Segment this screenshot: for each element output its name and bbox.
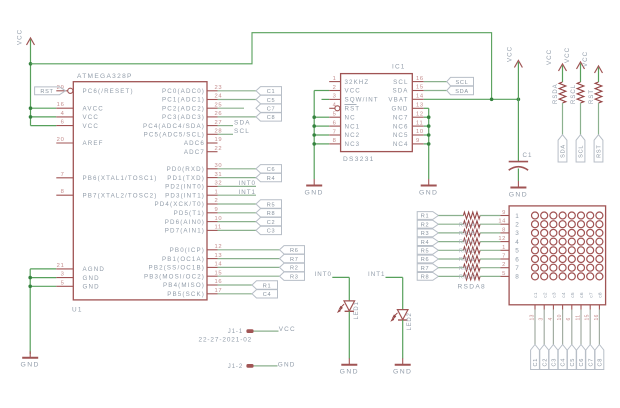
- svg-text:PC0(ADC0): PC0(ADC0): [162, 88, 205, 95]
- resistor RSDA8 element 5: [459, 247, 480, 255]
- svg-text:22: 22: [215, 146, 223, 152]
- svg-text:C1: C1: [267, 89, 276, 95]
- svg-text:ADC6: ADC6: [184, 140, 205, 147]
- pin 16 PB4(MISO) U1: [163, 279, 222, 289]
- pin 16 SCL IC1: [393, 76, 424, 86]
- svg-text:23: 23: [215, 85, 223, 91]
- wire matrix column 5 down: [571, 310, 573, 345]
- svg-text:SCL: SCL: [393, 79, 408, 86]
- net flag C7 (matrix): [586, 345, 595, 370]
- net flag R2: [280, 263, 305, 272]
- wire matrix column 6 down: [580, 310, 582, 345]
- junction on VCC rail at top branch: [29, 62, 33, 66]
- pin 22 ADC7 U1: [184, 146, 222, 156]
- svg-text:9: 9: [502, 210, 506, 216]
- svg-text:PD3(INT1): PD3(INT1): [165, 192, 205, 199]
- svg-text:NC2: NC2: [345, 132, 361, 139]
- svg-text:VCC: VCC: [345, 88, 361, 95]
- svg-text:PC5(ADC5/SCL): PC5(ADC5/SCL): [144, 132, 205, 139]
- svg-text:PC2(ADC2): PC2(ADC2): [162, 105, 205, 112]
- wire resistor to matrix pin 14: [480, 223, 500, 225]
- pin 12 PB0(ICP) U1: [170, 244, 223, 254]
- resistor RSDA: [553, 82, 566, 104]
- svg-text:8: 8: [61, 189, 65, 195]
- svg-text:16: 16: [57, 102, 65, 108]
- wire IC1 pin7 feed: [314, 134, 329, 136]
- wire IC1 pin11 feed: [424, 125, 429, 127]
- wire resistor to matrix pin 12: [480, 241, 500, 243]
- wire INT0 net at U1: [218, 185, 257, 187]
- svg-text:C7: C7: [588, 358, 594, 367]
- resistor RSDA8 element 3: [459, 230, 480, 238]
- svg-text:21: 21: [57, 263, 65, 269]
- net flag C4: [252, 290, 278, 299]
- svg-text:16: 16: [215, 279, 223, 285]
- wire SCL net at U1: [218, 133, 234, 135]
- svg-text:RSCL: RSCL: [571, 84, 577, 104]
- svg-text:c2: c2: [542, 292, 548, 298]
- wire IC1 pin2 to gnd rail: [314, 90, 329, 92]
- wire matrix column 3 down: [552, 310, 554, 345]
- pin 14 LED matrix row 2: [498, 219, 509, 225]
- svg-text:c6: c6: [579, 292, 585, 298]
- overline RST IC1: [345, 104, 357, 106]
- svg-text:9: 9: [215, 207, 219, 213]
- svg-text:32KHZ: 32KHZ: [345, 79, 370, 86]
- LED matrix pixel circles: [532, 212, 603, 280]
- svg-text:RST: RST: [40, 89, 53, 95]
- pin 28 PC5(ADC5/SCL) U1: [144, 129, 223, 139]
- svg-text:INT0: INT0: [315, 271, 332, 278]
- pin 17 PB5(SCK) U1: [167, 288, 222, 298]
- svg-text:6: 6: [515, 256, 519, 263]
- svg-text:SDA: SDA: [561, 144, 567, 158]
- svg-text:PB7(XTAL2/TOSC2): PB7(XTAL2/TOSC2): [83, 192, 158, 199]
- svg-text:J1-2: J1-2: [228, 364, 243, 370]
- svg-text:22-27-2021-02: 22-27-2021-02: [199, 336, 253, 343]
- svg-text:SDA: SDA: [392, 88, 408, 95]
- wire PC3 net: [218, 116, 257, 118]
- svg-text:IC1: IC1: [392, 64, 406, 71]
- svg-text:VCC: VCC: [83, 123, 100, 130]
- svg-text:19: 19: [215, 137, 223, 143]
- wire matrix column 8 down: [598, 310, 600, 345]
- net flag C2: [256, 217, 282, 226]
- net flag R1: [252, 281, 278, 290]
- pin 8 LED matrix row 3: [500, 227, 509, 233]
- svg-text:LED2: LED2: [407, 312, 413, 330]
- svg-text:J1-1: J1-1: [228, 329, 243, 335]
- svg-text:c8: c8: [598, 292, 604, 298]
- pin 5 NC IC1: [329, 112, 355, 122]
- wire GND rail left: [29, 269, 31, 354]
- svg-text:PD5(T1): PD5(T1): [174, 210, 205, 217]
- pin 9 LED matrix row 1: [500, 210, 509, 216]
- svg-text:c4: c4: [561, 292, 567, 298]
- svg-text:12: 12: [416, 111, 424, 117]
- wire top run to DS3231 area: [31, 33, 492, 100]
- wire LED1 cathode to ground: [348, 311, 350, 358]
- wire matrix column 7 down: [589, 310, 591, 345]
- wire resistor to matrix pin 7: [480, 258, 500, 260]
- svg-text:10: 10: [416, 129, 424, 135]
- pin 2 VCC IC1: [329, 85, 361, 95]
- pin 1 LED matrix row 5: [500, 245, 509, 251]
- svg-text:R1: R1: [421, 214, 430, 220]
- junction IC1 pin7: [312, 133, 316, 137]
- svg-text:VCC: VCC: [279, 326, 296, 333]
- junction VCC pin4: [29, 115, 33, 119]
- pin 8 PB7(XTAL2/TOSC2) U1: [56, 189, 157, 199]
- wire PD0 net: [218, 168, 257, 170]
- net flag R2: [417, 220, 438, 228]
- svg-text:2: 2: [515, 222, 519, 229]
- svg-text:R7: R7: [421, 266, 430, 272]
- svg-text:VCC: VCC: [83, 114, 100, 121]
- supply VCC (left): [17, 29, 35, 45]
- svg-text:c7: c7: [588, 292, 594, 298]
- wire GND pin5 feed: [30, 285, 56, 287]
- LED LED1: [338, 301, 355, 312]
- svg-text:7: 7: [333, 129, 337, 135]
- junction AVCC: [29, 106, 33, 110]
- svg-text:2: 2: [215, 198, 219, 204]
- resistor RSCL: [571, 82, 584, 104]
- svg-text:5: 5: [333, 112, 337, 118]
- junction GND pin5: [28, 285, 32, 289]
- capacitor C1: [509, 152, 533, 170]
- pin 32 PD2(INT0) U1: [165, 181, 222, 191]
- svg-text:10: 10: [215, 216, 223, 222]
- svg-text:31: 31: [215, 172, 223, 178]
- svg-text:PD7(AIN1): PD7(AIN1): [165, 228, 205, 235]
- svg-text:PB2(SS/OC1B): PB2(SS/OC1B): [149, 265, 205, 272]
- svg-text:c1: c1: [533, 292, 539, 298]
- svg-text:6: 6: [61, 120, 65, 126]
- net flag SCL (pull-up): [576, 135, 585, 162]
- svg-text:NC4: NC4: [393, 141, 409, 148]
- svg-text:PB6(XTAL1/TOSC1): PB6(XTAL1/TOSC1): [83, 175, 158, 182]
- wire RSDA to flag: [562, 103, 564, 135]
- wire AVCC feed: [31, 107, 57, 109]
- svg-text:R4: R4: [421, 240, 430, 246]
- svg-text:C4: C4: [263, 292, 272, 298]
- net flag C2 (matrix): [540, 345, 549, 370]
- wire PD5 net: [218, 212, 257, 214]
- wire VBAT to VCC node: [424, 98, 519, 100]
- pin 3 LED matrix column 2: [539, 305, 545, 321]
- svg-text:SCL: SCL: [579, 145, 585, 158]
- svg-text:C4: C4: [561, 358, 567, 367]
- svg-text:R5: R5: [421, 249, 430, 255]
- wire IC1 pin13 to gnd rail: [424, 107, 429, 109]
- svg-text:C1: C1: [533, 358, 539, 367]
- svg-text:GND: GND: [21, 362, 40, 369]
- svg-text:R4: R4: [267, 176, 276, 182]
- wire R8 to resistor: [438, 275, 463, 277]
- svg-text:7: 7: [502, 254, 506, 260]
- pin 14 PB2(SS/OC1B) U1: [149, 262, 223, 272]
- junction IC1 pin9: [427, 142, 431, 146]
- wire AGND feed: [30, 268, 56, 270]
- supply VCC (RST): [582, 51, 603, 73]
- svg-text:2: 2: [502, 262, 506, 268]
- wire R1 to resistor: [438, 215, 463, 217]
- net flag R8: [256, 209, 282, 218]
- wire PD7 net: [218, 229, 257, 231]
- LED LED2: [392, 310, 409, 321]
- pin 9 NC4 IC1: [393, 138, 424, 148]
- svg-text:4: 4: [515, 239, 519, 246]
- pin 21 AGND U1: [56, 263, 105, 273]
- net flag RST (pull-up): [594, 135, 603, 162]
- net flag R8: [417, 273, 438, 281]
- wire PB2 net: [218, 266, 280, 268]
- pin 15 SDA IC1: [392, 85, 423, 95]
- svg-text:5: 5: [502, 271, 506, 277]
- pin 10 NC5 IC1: [393, 129, 424, 139]
- junction VBAT / C1 node: [517, 98, 521, 102]
- svg-text:RN1D: RN1D: [459, 248, 476, 254]
- net flag C6: [256, 165, 282, 174]
- svg-text:INT0: INT0: [239, 180, 256, 187]
- net flag C3 (matrix): [549, 345, 558, 370]
- svg-text:R5: R5: [267, 202, 276, 208]
- pin 11 NC6 IC1: [393, 120, 424, 130]
- svg-text:8: 8: [502, 227, 506, 233]
- junction IC1 pin5: [312, 115, 316, 119]
- svg-text:C6: C6: [267, 167, 276, 173]
- wire IC1 pin8 feed: [314, 143, 329, 145]
- svg-text:R3: R3: [421, 231, 430, 237]
- svg-text:VCC: VCC: [582, 51, 589, 67]
- svg-text:12: 12: [215, 244, 223, 250]
- junction IC1 pin8: [312, 142, 316, 146]
- svg-text:1: 1: [502, 245, 506, 251]
- wire VCC rail left: [30, 40, 32, 126]
- pin 11 LED matrix column 6: [575, 305, 581, 321]
- pin 7 NC2 IC1: [329, 129, 360, 139]
- svg-text:AGND: AGND: [83, 266, 105, 273]
- svg-text:SDA: SDA: [234, 119, 251, 126]
- pin 6 NC1 IC1: [329, 120, 360, 130]
- svg-text:R8: R8: [421, 275, 430, 281]
- pin 9 PD5(T1) U1: [174, 207, 219, 217]
- wire PD6 net: [218, 221, 257, 223]
- wire matrix column 4 down: [562, 310, 564, 345]
- connector pin J1-1: [228, 329, 279, 335]
- net flag SDA (pull-up): [558, 135, 567, 162]
- wire PD4 net: [218, 203, 257, 205]
- pin 25 PC2(ADC2) U1: [162, 102, 222, 112]
- svg-text:C3: C3: [267, 229, 276, 235]
- svg-text:1: 1: [515, 213, 519, 220]
- wire VCC to RSCL: [580, 64, 582, 83]
- net flag C1: [256, 87, 282, 96]
- wire resistor to matrix pin 1: [480, 249, 500, 251]
- net flag C5: [256, 95, 282, 104]
- svg-text:R7: R7: [290, 257, 299, 263]
- resistor RSDA8 element 4: [459, 238, 480, 246]
- svg-text:GND: GND: [83, 275, 100, 282]
- pin 14 VBAT IC1: [388, 94, 424, 104]
- pin 24 PC1(ADC1) U1: [162, 94, 222, 104]
- pin 29 PC6(/RESET) U1: [56, 85, 133, 95]
- svg-text:PC3(ADC3): PC3(ADC3): [162, 114, 205, 121]
- net flag R7: [417, 264, 438, 272]
- pin 4 VCC U1: [56, 111, 99, 121]
- svg-text:RSDA: RSDA: [553, 83, 559, 104]
- wire SDA to flag: [424, 90, 447, 92]
- svg-text:ATMEGA328P: ATMEGA328P: [77, 73, 133, 80]
- wire IC1 pin12 feed: [424, 116, 429, 118]
- pin 16 LED matrix column 8: [594, 305, 600, 321]
- net flag R4: [256, 173, 282, 182]
- ground (IC1 right): [419, 179, 438, 196]
- svg-text:VCC: VCC: [507, 46, 514, 62]
- svg-text:C2: C2: [267, 220, 276, 226]
- svg-text:SQW/INT: SQW/INT: [345, 97, 379, 104]
- wire gnd rail right of IC1: [428, 108, 430, 179]
- svg-text:1: 1: [215, 189, 219, 195]
- svg-text:PB5(SCK): PB5(SCK): [167, 291, 205, 298]
- svg-text:RST: RST: [589, 89, 595, 104]
- wire RSCL to flag: [580, 103, 582, 135]
- net flag C7: [256, 104, 282, 113]
- pin 4 RST IC1: [329, 103, 360, 113]
- wire VCC to RSDA: [562, 66, 564, 83]
- svg-text:5: 5: [515, 248, 519, 255]
- wire VCC pin6 feed: [31, 125, 57, 127]
- pin 2 PD4(XCK/T0) U1: [155, 198, 219, 208]
- svg-text:28: 28: [215, 129, 223, 135]
- wire PB0 net: [218, 249, 280, 251]
- svg-text:27: 27: [215, 120, 223, 126]
- ground (C1): [509, 181, 528, 198]
- svg-text:C5: C5: [267, 98, 276, 104]
- pin 13 GND IC1: [391, 103, 423, 113]
- wire LED2 net horizontal: [386, 276, 403, 278]
- pin 13 PB1(OC1A) U1: [162, 253, 222, 263]
- svg-text:4: 4: [61, 111, 65, 117]
- svg-text:PC4(ADC4/SDA): PC4(ADC4/SDA): [143, 123, 205, 130]
- wire INT1 net at U1: [218, 194, 257, 196]
- svg-text:GND: GND: [305, 189, 324, 196]
- svg-text:PD2(INT0): PD2(INT0): [165, 184, 205, 191]
- wire IC1 pin3 stub: [322, 98, 330, 100]
- svg-text:R8: R8: [267, 211, 276, 217]
- wire LED2 cathode to ground: [402, 320, 404, 359]
- svg-text:R2: R2: [421, 222, 430, 228]
- resistor RSDA8 element 6: [459, 256, 480, 264]
- connector pin J1-2: [228, 364, 278, 370]
- svg-text:14: 14: [498, 219, 506, 225]
- svg-text:R6: R6: [290, 248, 299, 254]
- wire SCL to flag: [424, 81, 447, 83]
- wire LED1 net horizontal: [332, 276, 349, 278]
- net flag C6 (matrix): [577, 345, 586, 370]
- svg-text:4: 4: [333, 103, 337, 109]
- svg-text:PB1(OC1A): PB1(OC1A): [162, 256, 205, 263]
- op LED matrix body: [509, 206, 605, 305]
- pin 4 LED matrix column 3: [548, 305, 554, 321]
- svg-text:3: 3: [61, 272, 65, 278]
- wire R6 to resistor: [438, 258, 463, 260]
- svg-text:SDA: SDA: [455, 89, 469, 95]
- net flag C4 (matrix): [558, 345, 567, 370]
- resistor RSDA8 element 1: [463, 212, 480, 219]
- svg-text:R6: R6: [421, 257, 430, 263]
- svg-text:NC3: NC3: [345, 141, 361, 148]
- resistor RSDA8 element 2: [459, 221, 480, 229]
- pin 11 PD7(AIN1) U1: [165, 225, 222, 235]
- pin 16 AVCC U1: [56, 102, 104, 112]
- svg-text:26: 26: [215, 111, 223, 117]
- svg-text:RN1C: RN1C: [459, 240, 476, 246]
- junction GND pin3: [28, 276, 32, 280]
- junction IC1 pin12: [427, 115, 431, 119]
- wire VCC pin4 feed: [31, 116, 57, 118]
- svg-text:1: 1: [333, 76, 337, 82]
- wire SDA net at U1: [218, 125, 234, 127]
- wire IC1 pin6 feed: [314, 125, 329, 127]
- svg-text:R3: R3: [290, 275, 299, 281]
- svg-text:8: 8: [515, 274, 519, 281]
- svg-text:16: 16: [416, 76, 424, 82]
- svg-text:13: 13: [215, 253, 223, 259]
- svg-text:GND: GND: [340, 369, 359, 376]
- svg-text:NC5: NC5: [393, 132, 409, 139]
- svg-text:3: 3: [333, 94, 337, 100]
- wire PB1 net: [218, 258, 280, 260]
- net flag SDA: [447, 86, 474, 95]
- resistor RSDA8 element 7: [459, 264, 480, 272]
- pin 5 GND U1: [56, 280, 99, 290]
- svg-text:GND: GND: [419, 189, 438, 196]
- net flag SCL: [447, 77, 474, 86]
- svg-text:GND: GND: [393, 369, 412, 376]
- svg-text:2: 2: [333, 85, 337, 91]
- wire R5 to resistor: [438, 249, 463, 251]
- wire LED1 anode: [348, 277, 350, 301]
- svg-text:7: 7: [61, 172, 65, 178]
- svg-text:RST: RST: [345, 106, 361, 113]
- svg-text:GND: GND: [83, 284, 100, 291]
- svg-text:c3: c3: [552, 292, 558, 298]
- net flag R6: [280, 246, 305, 255]
- pin 3 SQW/INT IC1: [329, 94, 378, 104]
- junction IC1 pin10: [427, 133, 431, 137]
- svg-text:RN1A: RN1A: [459, 222, 475, 228]
- resistor RST: [589, 82, 602, 104]
- pin 1 PD3(INT1) U1: [165, 189, 218, 199]
- svg-text:SCL: SCL: [456, 80, 469, 86]
- junction IC1 pin6: [312, 124, 316, 128]
- svg-text:14: 14: [416, 94, 424, 100]
- svg-text:30: 30: [215, 163, 223, 169]
- pin 31 PD1(TXD) U1: [167, 172, 222, 182]
- svg-text:AVCC: AVCC: [83, 105, 104, 112]
- svg-text:RN1G: RN1G: [459, 275, 476, 281]
- net flag R3: [417, 229, 438, 237]
- svg-text:C3: C3: [552, 358, 558, 367]
- svg-text:C1: C1: [523, 152, 533, 159]
- svg-text:R1: R1: [263, 283, 272, 289]
- wire resistor to matrix pin 9: [480, 215, 500, 217]
- net flag C8 (matrix): [595, 345, 604, 370]
- ground (LED2): [393, 358, 412, 375]
- svg-text:VCC: VCC: [564, 47, 571, 63]
